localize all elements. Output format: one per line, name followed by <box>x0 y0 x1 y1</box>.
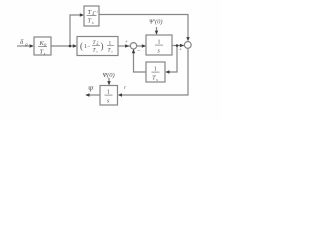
wire input <box>17 45 33 47</box>
value box6 fraction bar <box>105 94 113 97</box>
block box1 K_R/T_s <box>34 37 51 55</box>
arrowhead into box3 <box>73 44 77 47</box>
value box3 second fraction bar <box>107 45 114 48</box>
block box2 T_A/T_s <box>84 6 99 26</box>
svg-text:+: + <box>125 40 128 45</box>
svg-text:(: ( <box>80 41 83 51</box>
arrowhead into summer S2 top <box>186 37 189 41</box>
value integrator U1 fraction bar <box>155 44 163 47</box>
svg-text:Ψ(0): Ψ(0) <box>103 72 115 79</box>
arrowhead output psi <box>85 93 89 96</box>
summer S1 <box>130 43 136 49</box>
svg-text:Ψ′(0): Ψ′(0) <box>149 19 163 26</box>
arrowhead psi(0) into box6 top <box>107 81 110 85</box>
wire summer S2 down to box6 input <box>119 48 188 95</box>
svg-text:s+1: s+1 <box>93 10 98 14</box>
svg-text:1: 1 <box>107 90 110 96</box>
arrowhead into summer S2 left <box>180 44 184 47</box>
value box3 inner fraction bar <box>92 45 100 48</box>
wire node A branch up to box2 <box>70 15 83 46</box>
arrowhead psi'(0) into U1 top <box>155 31 158 35</box>
wire initial condition psi'(0) into U1 <box>156 27 158 34</box>
value box2 fraction bar <box>87 14 97 17</box>
wire box6 output psi <box>87 94 101 96</box>
block box5 1/T_s feedback <box>146 62 165 82</box>
block box3 (1-T_A/T_s)(1/T_s) <box>77 37 118 56</box>
svg-text:1: 1 <box>154 67 157 73</box>
summer S2 <box>184 42 191 49</box>
wire initial condition psi(0) into box6 <box>108 78 110 85</box>
svg-text:+: + <box>179 48 182 53</box>
wire box1 to node A <box>51 45 76 47</box>
arrowhead into box5 <box>165 70 169 73</box>
arrowhead into box2 <box>80 13 84 16</box>
svg-text:R: R <box>24 43 28 48</box>
wire box3 to summer S1 <box>118 45 130 47</box>
value box1 fraction bar <box>38 45 47 48</box>
wire node B down to box5 input <box>167 46 178 73</box>
node A junction dot <box>69 45 72 48</box>
wire integrator U1 to summer S2 <box>172 45 184 47</box>
node B junction dot <box>176 44 179 47</box>
wire box5 output to summer S1 minus <box>134 50 147 72</box>
svg-text:T: T <box>88 9 92 16</box>
value box5 fraction bar <box>152 71 160 74</box>
arrowhead into summer S1 bottom <box>132 49 135 53</box>
svg-text:1−: 1− <box>84 44 91 50</box>
arrowhead into integrator U1 <box>142 44 146 47</box>
arrowhead into box1 <box>30 44 34 47</box>
arrowhead into box6 right <box>118 93 122 96</box>
svg-text:T: T <box>88 18 92 25</box>
svg-text:1: 1 <box>158 40 161 46</box>
integrator U1 1/s <box>146 35 172 55</box>
arrowhead into summer S1 <box>125 44 129 47</box>
svg-text:): ) <box>101 41 104 51</box>
integrator box6 1/s <box>100 86 118 106</box>
wire box2 to summer S2 top <box>99 15 188 40</box>
wire summer S1 to integrator U1 <box>137 45 146 47</box>
